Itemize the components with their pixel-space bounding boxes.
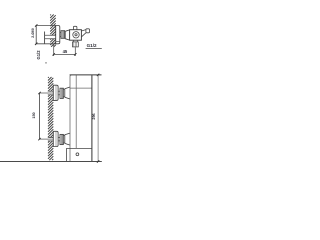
svg-text:45: 45 <box>63 49 68 54</box>
svg-text:296: 296 <box>92 113 96 119</box>
svg-text:G1/2: G1/2 <box>87 43 97 48</box>
svg-text:150: 150 <box>32 112 36 118</box>
svg-text:2-Ø60: 2-Ø60 <box>31 28 35 38</box>
svg-text:G1/2: G1/2 <box>36 50 41 60</box>
